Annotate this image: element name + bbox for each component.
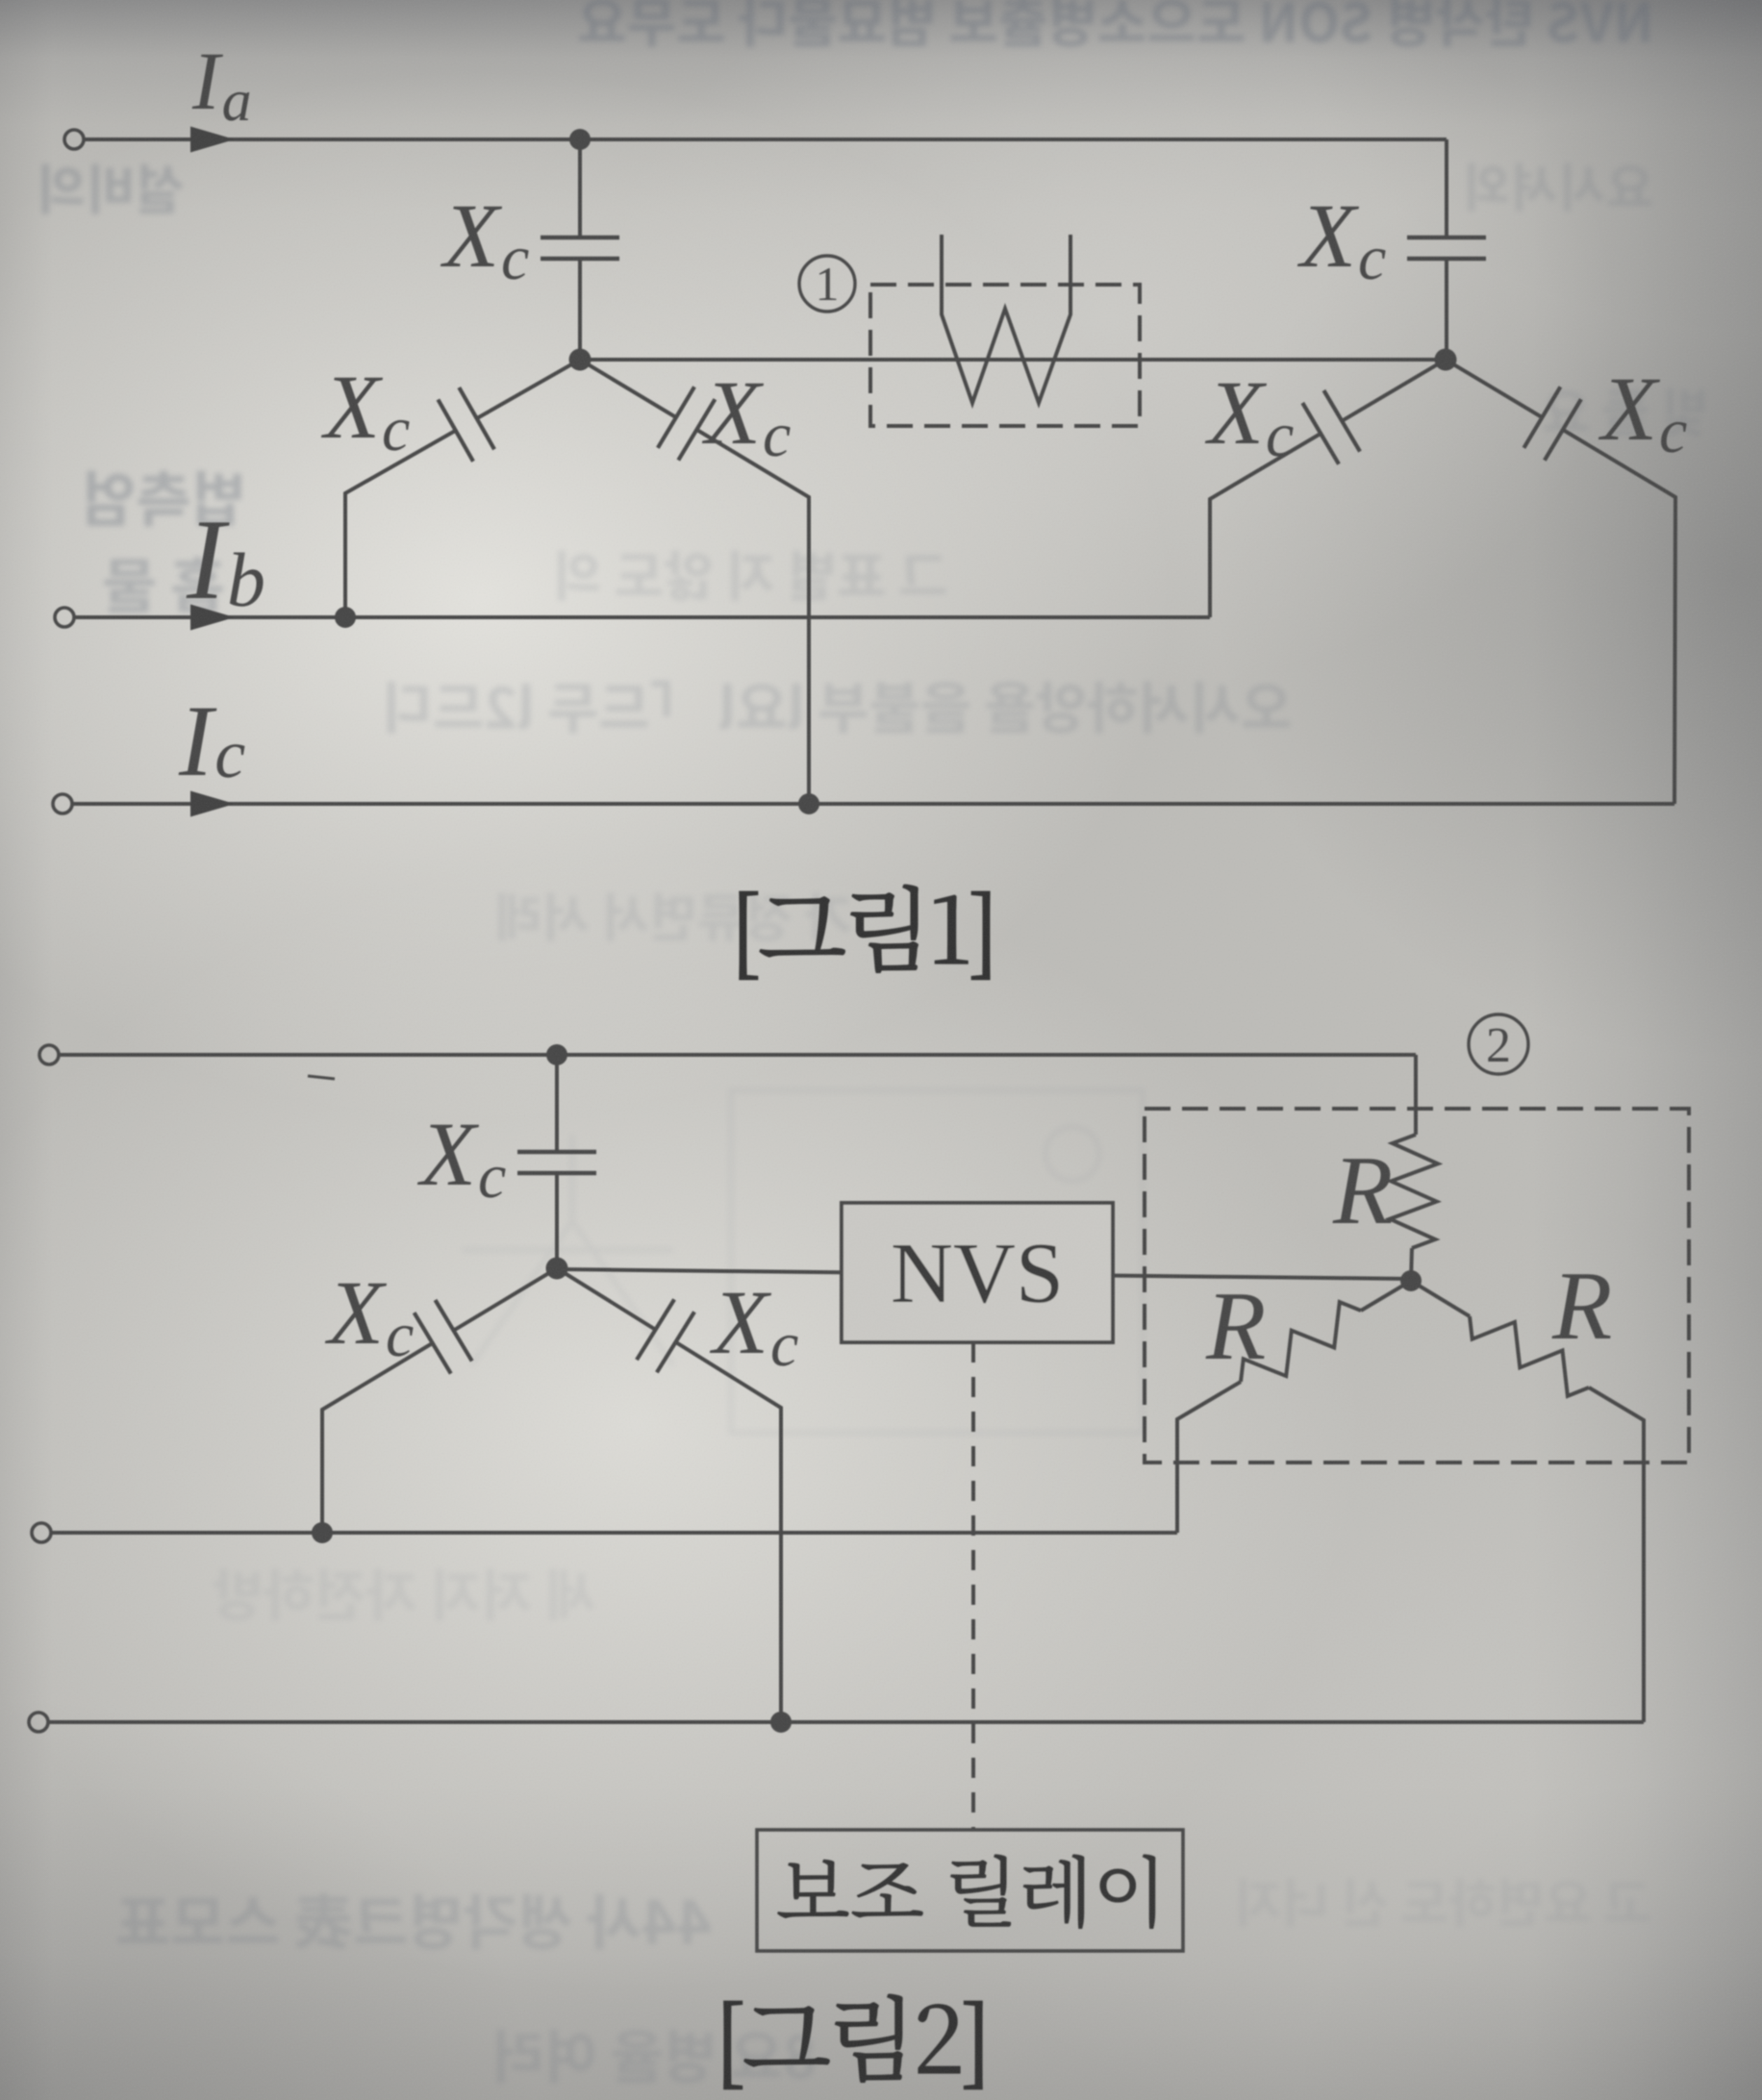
terminal: phase c input (Fig.1) xyxy=(53,794,72,813)
label R (right resistor) xyxy=(1551,1274,1610,1338)
node: left Y neutral (Fig.1) xyxy=(569,349,592,371)
auxiliary relay box (보조 릴레이) xyxy=(757,1830,1183,1951)
circled number 2 xyxy=(1469,1014,1528,1074)
lamp element W (inside box 1) xyxy=(942,235,1070,403)
dashed control line: NVS to auxiliary relay xyxy=(971,1342,975,1830)
dashed box 1 (element 1) xyxy=(870,285,1140,426)
junction: left Y on phase b bus xyxy=(335,607,356,628)
label R (left resistor) xyxy=(1205,1294,1264,1359)
current arrow Ib xyxy=(190,605,235,631)
current arrow Ia xyxy=(190,127,235,153)
junction: phase a shunt tap (Fig.2) xyxy=(546,1044,567,1065)
resistor R (top, from phase a corner) xyxy=(1414,1055,1418,1135)
label R (top resistor) xyxy=(1332,1159,1391,1223)
capacitor Xc (left Y, leg to phase b) xyxy=(477,360,580,418)
stray mark xyxy=(308,1076,335,1079)
label Ib xyxy=(187,522,230,598)
dashed box 2 (element 2) xyxy=(1145,1109,1689,1462)
junction: left Y on phase c bus xyxy=(798,793,819,814)
capacitor Xc (Y leg to phase c, Fig.2) xyxy=(557,1268,656,1330)
label Xc (c-leg, Fig.2) xyxy=(710,1293,771,1353)
label Xc (right Y, c-leg) xyxy=(1598,380,1660,439)
label Xc (right Y, b-leg) xyxy=(1205,384,1267,443)
label Ia xyxy=(192,55,223,109)
wire: phase a bus (Fig.2) xyxy=(59,1053,1416,1057)
label Ic xyxy=(179,709,217,775)
caption [Fig.2] xyxy=(724,1994,982,2088)
wire: phase b bus (Fig.2) xyxy=(51,1531,1177,1535)
capacitor Xc (Y leg to phase b, Fig.2) xyxy=(454,1268,557,1331)
wire: phase b bus (Fig.1) xyxy=(74,615,1210,619)
label Xc (shunt, Fig.2) xyxy=(417,1125,479,1185)
capacitor Xc (left shunt on phase a) xyxy=(578,139,582,237)
current arrow Ic xyxy=(190,791,235,817)
junction: Y leg on phase c bus (Fig.2) xyxy=(770,1712,792,1733)
junction: Y leg on phase b bus (Fig.2) xyxy=(312,1522,333,1543)
NVS box xyxy=(842,1203,1113,1342)
wire: phase c bus (Fig.1) xyxy=(72,802,1674,806)
capacitor Xc (right shunt on phase a) xyxy=(1445,139,1448,237)
label Xc (left Y, c-leg) xyxy=(702,384,764,443)
label Xc (left shunt) xyxy=(440,207,502,266)
terminal: phase a input (Fig.2) xyxy=(39,1045,59,1064)
capacitor Xc (right Y, leg to phase b) xyxy=(1342,360,1446,421)
caption [Fig.1] xyxy=(740,885,990,979)
wire: phase a bus (Fig.1) xyxy=(84,137,1447,141)
terminal: phase b input (Fig.2) xyxy=(32,1523,51,1542)
wire: neutral link between Y points (Fig.1) xyxy=(580,358,1446,362)
resistor R (left leg to phase b) xyxy=(1361,1281,1411,1311)
label Xc (left Y, b-leg) xyxy=(321,378,383,437)
junction: phase a shunt tap xyxy=(569,129,591,150)
terminal: phase c input (Fig.2) xyxy=(29,1712,48,1732)
node: R-Y neutral (box 2) xyxy=(1400,1270,1422,1291)
label Xc (b-leg, Fig.2) xyxy=(325,1284,387,1343)
capacitor Xc (shunt on phase a, Fig.2) xyxy=(555,1055,559,1152)
terminal: phase a input (Fig.1) xyxy=(64,130,84,149)
circled number 1 xyxy=(799,256,855,312)
node: right Y neutral (Fig.1) xyxy=(1435,349,1457,371)
wire: phase c bus (Fig.2) xyxy=(48,1720,1644,1724)
label Xc (right shunt) xyxy=(1297,207,1359,266)
node: Y neutral (Fig.2) xyxy=(546,1258,568,1280)
resistor R (right leg to phase c) xyxy=(1411,1281,1470,1316)
wire: neutral to NVS and R-Y node xyxy=(557,1269,1411,1279)
terminal: phase b input (Fig.1) xyxy=(55,608,74,627)
capacitor Xc (left Y, leg to phase c) xyxy=(580,360,676,417)
capacitor Xc (right Y, leg to phase c) xyxy=(1446,360,1542,417)
